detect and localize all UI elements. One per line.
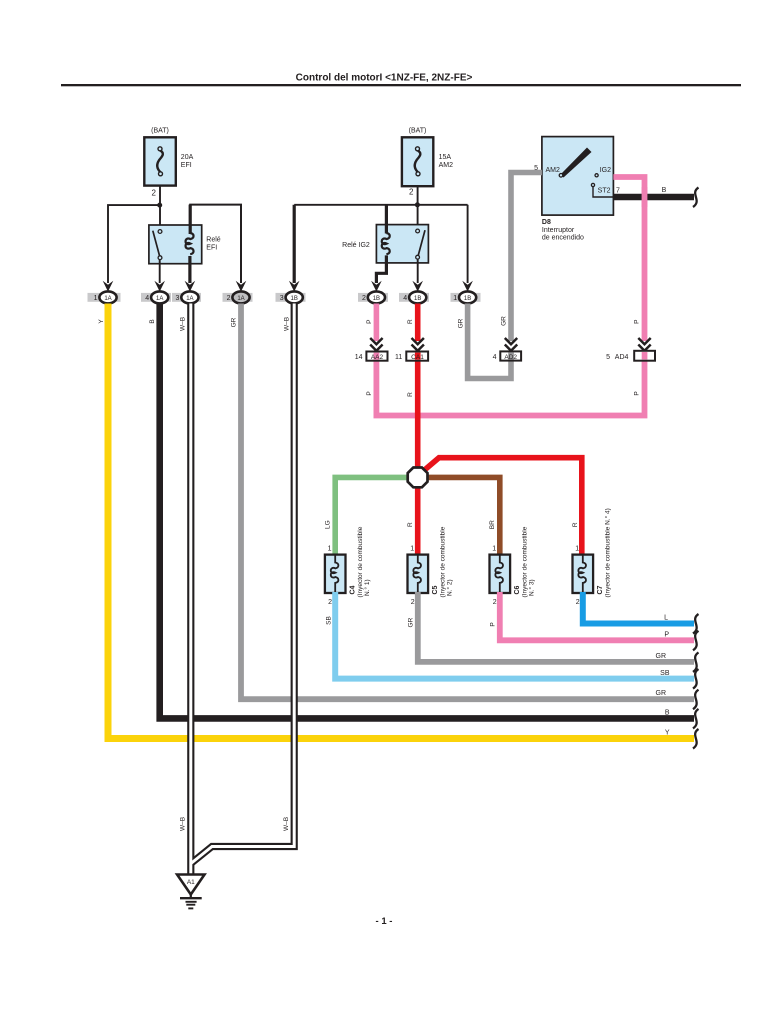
svg-text:1A: 1A — [104, 296, 111, 302]
injector C6 — [490, 555, 511, 593]
wire P pink C6 to right break — [500, 592, 694, 640]
svg-text:Y: Y — [98, 319, 105, 324]
svg-text:1: 1 — [328, 546, 332, 553]
svg-text:2: 2 — [576, 599, 580, 606]
svg-text:4: 4 — [145, 295, 149, 302]
svg-text:GR: GR — [458, 318, 465, 328]
wire W-B white core left — [189, 304, 192, 876]
wire GR from D8 AM2 pin to AD2 — [511, 173, 542, 342]
wire Y yellow from 1-1A to right break — [108, 304, 694, 739]
svg-text:P: P — [634, 320, 641, 324]
svg-text:C4: C4 — [350, 585, 357, 594]
svg-text:Control del motorI <1NZ-FE, 2N: Control del motorI <1NZ-FE, 2NZ-FE> — [296, 73, 473, 84]
svg-text:1: 1 — [575, 546, 579, 553]
svg-text:11: 11 — [395, 354, 402, 361]
connector 3 1A — [175, 281, 198, 304]
wire P pink link AA2 to AD4 — [376, 351, 644, 416]
svg-text:Interruptor: Interruptor — [542, 227, 575, 234]
connector AD2 chevrons — [505, 338, 517, 351]
svg-text:7: 7 — [616, 187, 620, 194]
svg-text:1B: 1B — [464, 296, 471, 302]
svg-text:2: 2 — [227, 295, 231, 302]
connector 1 1A — [94, 281, 117, 304]
svg-text:2: 2 — [152, 189, 157, 198]
svg-text:1B: 1B — [373, 296, 380, 302]
wire bus AM2 horizontal — [294, 204, 467, 206]
wire W-B from 3-1A down to ground (outer black) — [187, 304, 194, 876]
svg-text:AM2: AM2 — [546, 167, 561, 174]
wire W-B white core right — [191, 304, 294, 864]
wire relay IG2 switch to 4-1B — [417, 259, 419, 283]
svg-text:15A: 15A — [439, 154, 452, 161]
break symbol Y — [693, 729, 699, 749]
svg-text:3: 3 — [280, 295, 284, 302]
wire BR brown junction to C6 — [428, 477, 500, 556]
connector AD4 box pin 5 — [634, 351, 655, 361]
injector C5 — [408, 555, 429, 593]
svg-text:AA2: AA2 — [371, 354, 384, 361]
wire B black from 4-1A to right break — [160, 304, 694, 719]
wire GR gray C5 to right break — [418, 592, 694, 662]
break symbol SB — [693, 669, 699, 689]
svg-text:GR: GR — [231, 317, 238, 327]
wire relay EFI coil bottom to 3-1A (thick) — [188, 256, 191, 283]
svg-text:SB: SB — [326, 616, 333, 625]
svg-text:1A: 1A — [186, 296, 193, 302]
svg-text:GR: GR — [656, 690, 667, 697]
svg-text:3: 3 — [175, 295, 179, 302]
wire GR gray from 1-1B to AD2 bottom — [468, 304, 511, 379]
connector 1 1B — [453, 281, 476, 304]
svg-text:P: P — [366, 320, 373, 324]
break symbol B — [693, 709, 699, 729]
ground A1 — [177, 875, 204, 909]
svg-text:P: P — [634, 391, 641, 395]
svg-text:de encendido: de encendido — [542, 235, 584, 242]
svg-text:Relé: Relé — [206, 237, 221, 244]
connector 3 1B — [280, 281, 303, 304]
connector CA1 chevrons — [412, 338, 424, 351]
connector AA2 box pin 14 — [366, 352, 387, 361]
wire GR gray from 2-1A to right break — [241, 304, 694, 700]
svg-text:(Inyector de combustible: (Inyector de combustible — [522, 526, 529, 597]
svg-text:P: P — [366, 391, 373, 395]
title underline — [61, 84, 741, 86]
connector 4 1B — [403, 281, 426, 304]
connector 2 1A — [227, 281, 250, 304]
svg-text:5: 5 — [534, 165, 538, 172]
svg-text:D8: D8 — [542, 219, 551, 226]
svg-text:ST2: ST2 — [598, 187, 611, 194]
svg-text:2: 2 — [362, 295, 366, 302]
svg-text:N.° 2): N.° 2) — [446, 579, 454, 596]
svg-text:Y: Y — [665, 730, 670, 737]
svg-text:1: 1 — [453, 295, 457, 302]
svg-text:GR: GR — [408, 617, 415, 627]
break symbol L — [693, 614, 699, 634]
svg-text:1: 1 — [94, 295, 98, 302]
wire relay IG2 coil to 2-1B (thick) — [376, 255, 386, 283]
svg-text:5: 5 — [606, 354, 610, 361]
svg-text:C7: C7 — [597, 585, 604, 594]
ignition switch D8 box — [542, 137, 614, 216]
wire left branch to 3-1B (thick) — [293, 205, 296, 283]
svg-text:20A: 20A — [181, 154, 194, 161]
wire relay EFI switch to 4-1A — [159, 260, 161, 284]
svg-text:N.° 1): N.° 1) — [363, 579, 371, 596]
svg-text:2: 2 — [409, 188, 414, 197]
svg-text:LG: LG — [325, 520, 332, 529]
svg-text:B: B — [662, 187, 667, 194]
svg-text:1A: 1A — [156, 296, 163, 302]
svg-text:1B: 1B — [291, 296, 298, 302]
wire SB skyblue C4 to right break — [335, 592, 694, 679]
svg-text:P: P — [664, 632, 669, 639]
svg-text:C5: C5 — [432, 585, 439, 594]
svg-text:EFI: EFI — [206, 245, 217, 252]
wire right branch to 1-1B — [467, 205, 469, 283]
wire R red junction to C7 — [425, 458, 582, 556]
svg-text:1B: 1B — [414, 296, 421, 302]
wire W-B from 3-1B down and over to ground (outer black) — [191, 304, 294, 864]
svg-text:(Inyector de combustible N.°: (Inyector de combustible N.° 4) — [604, 508, 612, 597]
injector C4 — [325, 555, 346, 593]
connector AD4 chevrons — [638, 338, 650, 351]
fuse 15A AM2 — [402, 137, 433, 186]
svg-text:R: R — [407, 392, 414, 397]
break symbol GR — [693, 652, 699, 672]
relay IG2 — [376, 225, 428, 263]
svg-text:IG2: IG2 — [600, 167, 611, 174]
wire P from D8 IG2 pin down to AD4 — [613, 177, 644, 341]
wire R red from 4-1B to CA1 — [415, 304, 421, 342]
svg-text:14: 14 — [355, 354, 363, 361]
svg-text:L: L — [664, 615, 668, 622]
svg-text:EFI: EFI — [181, 162, 192, 169]
svg-text:AD4: AD4 — [615, 354, 629, 361]
break symbol P — [693, 631, 699, 651]
svg-text:B: B — [665, 710, 670, 717]
connector AD2 box pin 4 — [500, 351, 521, 360]
injector C7 — [573, 555, 594, 593]
wire P crossing over B — [642, 187, 648, 207]
svg-text:2: 2 — [411, 599, 415, 606]
svg-text:R: R — [407, 522, 414, 527]
svg-text:W–B: W–B — [284, 317, 291, 331]
node junction AM2 — [415, 202, 420, 207]
wire LG green junction to C4 — [335, 477, 407, 556]
wire relay EFI coil riser (thick) — [190, 205, 241, 283]
svg-text:2: 2 — [493, 599, 497, 606]
wire L blue C7 to right break — [583, 592, 694, 624]
svg-text:GR: GR — [501, 316, 508, 326]
svg-text:1: 1 — [410, 546, 414, 553]
svg-text:4: 4 — [493, 354, 497, 361]
wire R red junction down to C5 — [415, 488, 421, 556]
wire relay IG2 coil riser (thick) — [385, 205, 388, 234]
wire B from D8 ST2 pin to right break — [613, 194, 694, 201]
svg-text:AD2: AD2 — [504, 354, 517, 361]
D8 switch lever — [559, 148, 613, 198]
svg-text:W–B: W–B — [180, 317, 187, 331]
svg-text:(Inyector de combustible: (Inyector de combustible — [357, 526, 364, 597]
connector CA1 box pin 11 — [406, 352, 428, 361]
wire fuse EFI to node — [159, 186, 161, 231]
svg-text:W–B: W–B — [283, 817, 290, 831]
svg-text:(BAT): (BAT) — [151, 128, 169, 135]
svg-text:1A: 1A — [237, 296, 244, 302]
svg-text:W–B: W–B — [180, 817, 187, 831]
svg-text:Relé IG2: Relé IG2 — [342, 242, 370, 249]
wire node to 1A-1 branch — [108, 205, 160, 283]
connector 4 1A — [145, 281, 168, 304]
svg-text:- 1 -: - 1 - — [376, 916, 393, 927]
svg-text:A1: A1 — [187, 879, 195, 886]
break symbol on B wire — [693, 188, 699, 208]
node junction EFI — [157, 203, 162, 208]
svg-text:(Inyector de combustible: (Inyector de combustible — [440, 526, 447, 597]
svg-text:1: 1 — [492, 546, 496, 553]
junction node octagon overlay — [408, 468, 428, 488]
connector 2 1B — [362, 281, 385, 304]
wire R red CA1 down to junction — [415, 351, 421, 468]
svg-text:AM2: AM2 — [439, 162, 454, 169]
connector AA2 chevrons — [370, 338, 382, 351]
svg-text:GR: GR — [656, 653, 667, 660]
wire P pink from 2-1B to AA2 — [374, 304, 380, 342]
wire fuse AM2 down to relay IG2 switch — [417, 186, 419, 231]
svg-text:SB: SB — [660, 670, 670, 677]
svg-text:4: 4 — [403, 295, 407, 302]
svg-text:B: B — [149, 319, 156, 323]
svg-text:N.° 3): N.° 3) — [528, 579, 536, 596]
svg-text:(BAT): (BAT) — [409, 128, 427, 135]
svg-text:2: 2 — [328, 599, 332, 606]
svg-text:C6: C6 — [514, 585, 521, 594]
svg-text:R: R — [572, 522, 579, 527]
svg-text:BR: BR — [489, 520, 496, 529]
fuse 20A EFI — [144, 137, 176, 185]
break symbol GR2 — [693, 690, 699, 710]
svg-text:R: R — [407, 319, 414, 324]
svg-text:CA1: CA1 — [411, 354, 424, 361]
connector row: gray bands — [88, 293, 481, 302]
relay EFI — [149, 225, 202, 264]
svg-text:P: P — [490, 622, 497, 626]
